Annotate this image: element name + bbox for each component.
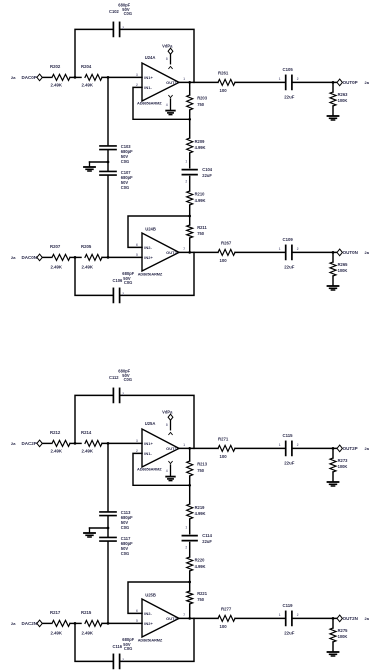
svg-text:2a: 2a [11,621,16,626]
junction feedback node B [188,581,191,584]
wire output cap B to port [293,251,337,253]
wire output cap to port [293,81,337,83]
svg-text:3: 3 [136,73,138,77]
capacitor C113 680pF [100,443,133,530]
svg-text:IN2+: IN2+ [144,255,153,260]
junction op-amp B output node [188,251,191,254]
svg-text:2a: 2a [11,441,16,446]
svg-text:C0G: C0G [124,377,132,382]
svg-text:4.99K: 4.99K [195,564,206,569]
op-amp U24B AD8656ARMZ [136,226,185,276]
svg-text:C0G: C0G [121,185,129,190]
wire op-amp B IN- to feedback node [128,582,190,613]
capacitor C112 680pF [109,368,132,402]
resistor R220 4.99K [187,543,206,583]
junction node feedback tap [74,442,77,445]
junction node cap chain tap [107,76,110,79]
wire output cap B to port [293,617,337,619]
resistor R219 4.99K [187,485,206,533]
wire R to output cap [235,447,285,449]
svg-text:100K: 100K [338,268,348,273]
capacitor C103 680pF [100,77,133,164]
svg-text:IN2-: IN2- [144,611,152,616]
capacitor C109 22uF [279,237,299,270]
svg-text:2: 2 [297,443,299,447]
svg-text:2: 2 [185,179,187,183]
svg-text:4: 4 [166,103,168,107]
svg-text:22uF: 22uF [284,461,294,466]
svg-text:R209: R209 [195,139,206,144]
svg-text:C119: C119 [283,603,294,608]
wire RB1 to RB2 [70,256,81,258]
svg-text:R220: R220 [195,558,206,563]
wire R to output cap [235,81,285,83]
wire op-amp B IN- to feedback node [128,216,190,247]
svg-text:1: 1 [183,443,185,447]
svg-text:2: 2 [297,77,299,81]
svg-text:2.49K: 2.49K [51,83,63,88]
svg-text:DAC0N: DAC0N [22,255,38,260]
svg-text:OUT2N: OUT2N [343,616,358,621]
svg-text:R277: R277 [221,606,232,611]
svg-text:2.49K: 2.49K [51,630,63,635]
svg-text:2a: 2a [11,75,16,80]
svg-text:U24B: U24B [145,226,156,231]
power pin V+ of U25A to VdPa [162,410,173,435]
op-amp U25A AD8656ARMZ [136,421,185,471]
wire R to output cap B [235,617,285,619]
power pin V- of U24A to ground [166,95,172,109]
svg-text:2: 2 [122,658,124,662]
wire op-amp A IN- to feedback node [133,87,190,119]
svg-text:AD8656ARMZ: AD8656ARMZ [138,637,163,642]
svg-text:2: 2 [297,247,299,251]
svg-text:C104: C104 [202,167,213,172]
svg-text:2: 2 [185,545,187,549]
svg-text:2.49K: 2.49K [82,449,94,454]
junction output node B [332,251,335,254]
port DAC0P [22,74,43,81]
svg-text:IN2-: IN2- [144,245,152,250]
port OUT0N [337,249,370,256]
svg-text:C0G: C0G [124,11,132,16]
svg-text:100: 100 [220,624,228,629]
svg-text:R204: R204 [81,64,92,69]
wire between chain caps [107,150,109,170]
svg-text:100: 100 [220,258,228,263]
svg-text:R213: R213 [197,462,208,467]
junction node feedback tap [74,76,77,79]
svg-text:2a: 2a [365,616,370,621]
capacitor C106 680pF [113,271,135,303]
svg-text:R214: R214 [81,430,92,435]
junction chain mid node [107,161,110,164]
svg-text:1: 1 [279,247,281,251]
svg-text:IN1-: IN1- [144,85,152,90]
wire DACP to RA1 [42,442,51,444]
junction output node A [332,447,335,450]
svg-text:R219: R219 [195,505,206,510]
svg-text:C0G: C0G [124,280,132,285]
wire RA1 to RA2 [70,76,81,78]
svg-text:IN1+: IN1+ [144,75,153,80]
svg-text:VdPa: VdPa [162,44,173,49]
capacitor C116 680pF [113,637,135,669]
op-amp U25B AD8656ARMZ [136,592,185,642]
svg-text:C115: C115 [283,433,294,438]
svg-text:R271: R271 [218,436,229,441]
svg-text:2: 2 [122,292,124,296]
wire RB1 to RB2 [70,622,81,624]
svg-text:OUT0N: OUT0N [343,250,358,255]
svg-text:22uF: 22uF [284,265,294,270]
wire op-amp A output [179,447,218,449]
svg-text:AD8656ARMZ: AD8656ARMZ [138,271,163,276]
svg-text:5: 5 [136,253,138,257]
svg-text:680pF: 680pF [122,271,134,276]
ground below op-amp [166,476,175,478]
junction node cap chain tap B [107,622,110,625]
svg-text:22uF: 22uF [202,173,212,178]
power pin V- of U25A to ground [166,461,172,475]
svg-text:2: 2 [136,449,138,453]
svg-text:R267: R267 [221,240,232,245]
svg-text:OUT2: OUT2 [166,250,177,255]
svg-text:100K: 100K [338,634,348,639]
resistor R212 2.49K [50,430,70,454]
svg-text:4.99K: 4.99K [195,511,206,516]
port OUT0P [337,79,370,86]
junction node cap chain tap B [107,256,110,259]
wire chain mid node to ground [90,527,109,529]
wire output cap to port [293,447,337,449]
svg-text:R273: R273 [338,458,349,463]
capacitor C119 22uF [279,603,299,636]
svg-text:C109: C109 [283,237,294,242]
wire op-amp A IN- to feedback node [133,453,190,485]
svg-text:7: 7 [183,613,185,617]
svg-text:R205: R205 [81,244,92,249]
resistor R211 750 [187,216,208,252]
svg-text:IN2+: IN2+ [144,621,153,626]
junction node feedback tap B [74,622,77,625]
svg-text:C116: C116 [113,644,123,649]
svg-text:R261: R261 [218,70,229,75]
wire op-amp B output [179,251,218,253]
power pin V+ of U24A to VdPa [162,44,173,69]
svg-text:22uF: 22uF [202,539,212,544]
ground below op-amp [166,110,175,112]
svg-text:OUT2P: OUT2P [343,446,358,451]
svg-text:U24A: U24A [145,55,156,60]
wire feedback loop left of C106 [75,257,113,295]
svg-text:U25A: U25A [145,421,156,426]
resistor R203 750 [187,82,208,119]
svg-text:750: 750 [197,468,205,473]
wire RA2 to op-amp IN+ [102,76,142,78]
wire op-amp B output [179,617,218,619]
svg-text:22uF: 22uF [284,95,294,100]
svg-text:2a: 2a [365,250,370,255]
svg-text:DAC2N: DAC2N [22,621,38,626]
wire feedback loop right of C116 [120,618,194,661]
svg-text:R212: R212 [50,430,61,435]
svg-text:2.49K: 2.49K [82,630,94,635]
svg-text:OUT2: OUT2 [166,616,177,621]
svg-text:OUT1: OUT1 [166,80,177,85]
resistor R267 100 [218,240,235,262]
svg-text:C0G: C0G [121,159,129,164]
junction output node A [332,81,335,84]
svg-text:2: 2 [297,613,299,617]
svg-text:5: 5 [136,619,138,623]
svg-text:C106: C106 [113,278,124,283]
capacitor C107 680pF [100,170,133,257]
svg-text:1: 1 [183,77,185,81]
wire RA2 to op-amp IN+ [102,442,142,444]
resistor R205 2.49K [81,244,102,269]
junction output node B [332,617,335,620]
wire feedback loop right of C112 [120,395,194,448]
capacitor C102 680pF [109,2,132,36]
svg-text:R217: R217 [50,610,61,615]
svg-text:4.99K: 4.99K [195,145,206,150]
svg-text:C114: C114 [202,533,212,538]
svg-text:R265: R265 [338,262,349,267]
svg-text:22uF: 22uF [284,631,294,636]
port DAC2N [22,620,43,627]
svg-text:7: 7 [183,247,185,251]
capacitor C105 22uF [279,67,299,100]
svg-text:R207: R207 [50,244,61,249]
wire R to output cap B [235,251,285,253]
svg-text:750: 750 [197,102,205,107]
wire feedback loop left of C102 [75,29,113,77]
svg-text:2a: 2a [365,446,370,451]
ground below output A termination [328,481,339,483]
resistor R209 4.99K [187,119,206,167]
op-amp U24A AD8656ARMZ [136,55,185,105]
ground below output A termination [328,115,339,117]
resistor R275 100K [330,618,348,651]
resistor R210 4.99K [187,177,206,217]
resistor R214 2.49K [81,430,102,454]
wire RB2 to op-amp IN+ [102,622,142,624]
junction op-amp A output node [188,447,191,450]
svg-text:2.49K: 2.49K [82,83,94,88]
capacitor C114 22uF [182,525,212,549]
junction feedback node A [188,484,191,487]
wire feedback loop left of C116 [75,623,113,661]
svg-text:C0G: C0G [121,551,129,556]
svg-text:750: 750 [197,231,205,236]
svg-text:6: 6 [136,243,138,247]
junction chain mid node [107,527,110,530]
wire feedback loop left of C112 [75,395,113,443]
capacitor C115 22uF [279,433,299,466]
resistor R217 2.49K [50,610,70,635]
svg-text:100K: 100K [338,98,348,103]
svg-text:100: 100 [220,88,228,93]
svg-text:R263: R263 [338,92,349,97]
resistor R202 2.49K [50,64,70,88]
wire feedback loop right of C102 [120,29,194,82]
svg-text:2.49K: 2.49K [51,449,63,454]
junction op-amp A output node [188,81,191,84]
wire DACN to RB1 [42,622,51,624]
svg-text:VdPa: VdPa [162,410,173,415]
resistor R215 2.49K [81,610,102,635]
svg-text:U25B: U25B [145,592,156,597]
ground at cap chain mid node [84,528,95,537]
svg-text:1: 1 [279,77,281,81]
svg-text:100K: 100K [338,464,348,469]
port DAC2P [22,440,43,447]
svg-text:2: 2 [136,83,138,87]
wire RB2 to op-amp IN+ [102,256,142,258]
wire chain mid node to ground [90,161,109,163]
svg-text:DAC2P: DAC2P [22,441,37,446]
port DAC0N [22,254,43,261]
svg-text:4: 4 [166,469,168,473]
ground below output B termination [328,285,339,287]
svg-text:AD8656ARMZ: AD8656ARMZ [137,101,162,106]
wire op-amp A output [179,81,218,83]
svg-text:6: 6 [136,609,138,613]
junction feedback node B [188,215,191,218]
svg-text:2a: 2a [365,80,370,85]
junction op-amp B output node [188,617,191,620]
svg-text:C0G: C0G [124,646,132,651]
resistor R221 750 [187,582,208,618]
junction node feedback tap B [74,256,77,259]
svg-text:IN1+: IN1+ [144,441,153,446]
wire RA1 to RA2 [70,442,81,444]
svg-text:2.49K: 2.49K [82,264,94,269]
svg-text:1: 1 [185,159,187,163]
svg-text:C0G: C0G [121,525,129,530]
wire DACN to RB1 [42,256,51,258]
capacitor C117 680pF [100,536,133,623]
svg-text:C102: C102 [109,9,120,14]
resistor R261 100 [218,70,235,92]
svg-text:IN1-: IN1- [144,451,152,456]
svg-text:1: 1 [279,613,281,617]
resistor R265 100K [330,252,348,285]
svg-text:AD8656ARMZ: AD8656ARMZ [137,467,162,472]
svg-text:R203: R203 [197,96,208,101]
resistor R207 2.49K [50,244,70,269]
ground below output B termination [328,651,339,653]
resistor R213 750 [187,448,208,485]
svg-text:DAC0P: DAC0P [22,75,37,80]
junction feedback node A [188,118,191,121]
resistor R277 100 [218,606,235,628]
svg-text:R221: R221 [197,591,208,596]
port OUT2N [337,615,370,622]
svg-text:750: 750 [197,597,205,602]
svg-text:OUT0P: OUT0P [343,80,358,85]
wire DACP to RA1 [42,76,51,78]
svg-text:1: 1 [185,525,187,529]
capacitor C104 22uF [182,159,212,183]
svg-text:R211: R211 [197,225,207,230]
svg-text:1: 1 [279,443,281,447]
svg-text:OUT1: OUT1 [166,446,177,451]
svg-text:C112: C112 [109,375,119,380]
resistor R273 100K [330,448,348,481]
svg-text:R210: R210 [195,192,206,197]
svg-text:R275: R275 [338,628,349,633]
resistor R204 2.49K [81,64,102,88]
svg-text:C105: C105 [283,67,294,72]
svg-text:8: 8 [166,57,168,61]
svg-text:680pF: 680pF [122,637,134,642]
junction node cap chain tap [107,442,110,445]
resistor R271 100 [218,436,235,458]
svg-text:R202: R202 [50,64,61,69]
wire between chain caps [107,516,109,536]
svg-text:R215: R215 [81,610,92,615]
svg-text:100: 100 [220,454,228,459]
svg-text:2: 2 [122,392,124,396]
svg-text:4.99K: 4.99K [195,198,206,203]
resistor R263 100K [330,82,348,115]
svg-text:2: 2 [122,26,124,30]
svg-text:3: 3 [136,439,138,443]
wire feedback loop right of C106 [120,252,194,295]
port OUT2P [337,445,370,452]
svg-text:2.49K: 2.49K [51,264,63,269]
ground at cap chain mid node [84,162,95,171]
svg-text:8: 8 [166,423,168,427]
svg-text:2a: 2a [11,255,16,260]
